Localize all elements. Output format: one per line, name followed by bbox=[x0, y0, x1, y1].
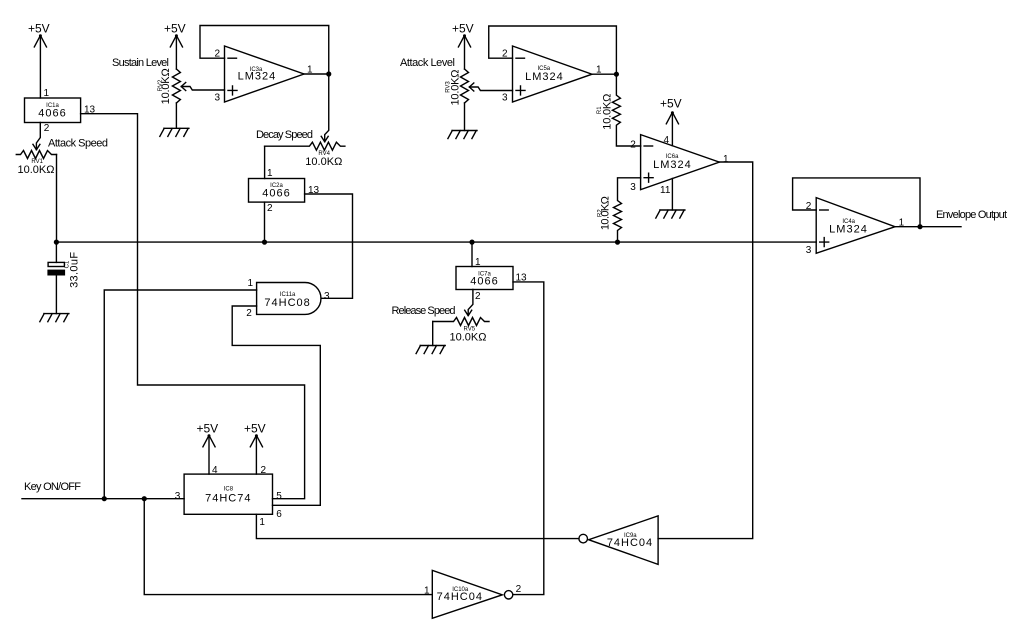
plus sign IC5a pin3 bbox=[516, 86, 525, 95]
wire IC6a pin11 to ground bbox=[671, 179, 673, 211]
junction dot R2/bus bbox=[615, 240, 620, 245]
power +5V symbol above IC1a bbox=[34, 34, 46, 47]
svg-text:+5V: +5V bbox=[197, 422, 219, 436]
wire RV2 wiper to IC3a pin 3 bbox=[181, 87, 224, 91]
bubble IC10a output bbox=[504, 591, 512, 599]
wire IC2a pin2 to bus bbox=[264, 202, 266, 242]
svg-text:LM324: LM324 bbox=[829, 224, 868, 236]
junction dot key line/AND branch bbox=[102, 496, 107, 501]
svg-text:2: 2 bbox=[475, 291, 481, 302]
and-gate IC11a 74HC08 bbox=[257, 283, 321, 315]
junction dot IC5a output node bbox=[614, 72, 619, 77]
svg-text:Decay Speed: Decay Speed bbox=[256, 129, 313, 141]
svg-text:Release Speed: Release Speed bbox=[392, 305, 456, 317]
svg-text:+5V: +5V bbox=[452, 22, 474, 36]
svg-text:10.0KΩ: 10.0KΩ bbox=[450, 332, 487, 344]
svg-text:2: 2 bbox=[44, 123, 50, 134]
wire bus to C1 top plate bbox=[55, 242, 57, 262]
svg-text:1: 1 bbox=[259, 517, 265, 528]
svg-text:4066: 4066 bbox=[470, 276, 498, 288]
svg-text:74HC04: 74HC04 bbox=[437, 591, 483, 603]
svg-text:2: 2 bbox=[246, 308, 252, 319]
power +5V symbol above IC6a pin 4 bbox=[666, 111, 678, 124]
svg-text:74HC74: 74HC74 bbox=[205, 493, 251, 505]
svg-text:1: 1 bbox=[267, 168, 273, 179]
svg-text:2: 2 bbox=[516, 584, 522, 595]
wire RV4 left lead down to IC2a pin 1 bbox=[264, 146, 266, 178]
junction dot IC4a output node bbox=[917, 224, 922, 229]
svg-text:Attack Level: Attack Level bbox=[400, 57, 455, 69]
potentiometer RV4 10.0K zigzag bbox=[265, 142, 345, 150]
wire IC6a output to IC9a input bbox=[658, 162, 753, 539]
svg-text:4: 4 bbox=[664, 135, 670, 146]
wire IC7a pin2 to RV5 wiper arrow bbox=[468, 290, 473, 316]
resistor R2 10.0K vertical zigzag bbox=[614, 178, 641, 242]
svg-text:Sustain Level: Sustain Level bbox=[112, 57, 169, 69]
capacitor C1 bottom plate (filled) bbox=[48, 270, 64, 275]
svg-text:2: 2 bbox=[261, 465, 267, 476]
svg-text:4066: 4066 bbox=[38, 108, 66, 120]
svg-text:2: 2 bbox=[630, 140, 636, 151]
svg-text:+5V: +5V bbox=[244, 422, 266, 436]
switch IC1a 4066 box bbox=[25, 98, 81, 123]
power +5V symbol above 74HC74 pin 2 bbox=[250, 434, 262, 447]
ground below RV5 bbox=[416, 346, 445, 354]
switch IC2a 4066 box bbox=[249, 179, 305, 203]
svg-text:1: 1 bbox=[44, 88, 50, 99]
wire IC5a output node bbox=[592, 73, 616, 75]
svg-text:+5V: +5V bbox=[660, 97, 682, 111]
potentiometer RV1 10.0K zigzag bbox=[16, 151, 56, 159]
junction dot IC7a pin1/bus bbox=[469, 240, 474, 245]
ground below C1 bbox=[40, 314, 69, 322]
wire AND pin1 from key line bbox=[104, 290, 256, 499]
svg-text:13: 13 bbox=[516, 273, 528, 284]
bubble IC9a output bbox=[579, 534, 588, 543]
wire Key ON/OFF input line bbox=[22, 498, 184, 500]
svg-text:3: 3 bbox=[215, 93, 221, 104]
wire IC5a feedback loop pin1 to pin2 bbox=[489, 26, 617, 74]
minus sign IC3a pin2 bbox=[228, 57, 237, 59]
svg-text:Attack Speed: Attack Speed bbox=[48, 138, 108, 150]
svg-text:+5V: +5V bbox=[28, 22, 50, 36]
svg-text:3: 3 bbox=[324, 291, 330, 302]
inverter IC10a 74HC04 triangle (points right) bbox=[432, 570, 502, 618]
ground below RV2 bbox=[160, 128, 189, 136]
svg-text:10.0KΩ: 10.0KΩ bbox=[600, 196, 612, 230]
wire 74HC74 pin2 +5V stem bbox=[255, 435, 257, 474]
plus sign IC4a pin3 bbox=[820, 238, 829, 247]
wire +5V stem to IC1a pin 1 bbox=[39, 35, 41, 98]
svg-text:1: 1 bbox=[475, 257, 481, 268]
svg-text:LM324: LM324 bbox=[238, 71, 277, 83]
svg-text:2: 2 bbox=[502, 49, 508, 60]
wire IC3a output to RV4 wiper bbox=[304, 74, 329, 142]
svg-text:Envelope Output: Envelope Output bbox=[936, 209, 1007, 221]
flip-flop IC8 74HC74 box bbox=[184, 474, 272, 514]
svg-text:3: 3 bbox=[175, 491, 181, 502]
svg-text:11: 11 bbox=[660, 185, 671, 196]
inverter IC9a 74HC04 triangle (points left) bbox=[589, 516, 659, 565]
svg-text:1: 1 bbox=[307, 65, 313, 76]
svg-text:1: 1 bbox=[596, 65, 602, 76]
svg-text:3: 3 bbox=[630, 182, 636, 193]
power +5V symbol above RV3 bbox=[458, 34, 470, 47]
wire IC3a feedback loop pin1 to pin2 bbox=[200, 26, 329, 75]
svg-text:5: 5 bbox=[276, 491, 282, 502]
svg-text:1: 1 bbox=[424, 586, 430, 597]
wire +5V stem to RV2 bbox=[175, 35, 177, 69]
svg-text:2: 2 bbox=[806, 201, 812, 212]
wire RV2 bottom to ground bbox=[175, 103, 177, 128]
svg-text:3: 3 bbox=[806, 245, 812, 256]
capacitor C1 top plate bbox=[48, 262, 64, 266]
wire RV3 bottom to ground bbox=[464, 103, 466, 131]
minus sign IC5a pin2 bbox=[516, 57, 525, 59]
wire RV5 left lead to ground bbox=[432, 322, 434, 346]
svg-text:74HC08: 74HC08 bbox=[264, 297, 310, 309]
svg-text:6: 6 bbox=[276, 509, 282, 520]
wire main bus node bbox=[56, 241, 816, 243]
wire IC6a pin2 from R1 (entry) bbox=[640, 145, 642, 147]
svg-text:10.0KΩ: 10.0KΩ bbox=[305, 156, 342, 168]
wire +5V stem to RV3 bbox=[464, 35, 466, 69]
svg-text:74HC04: 74HC04 bbox=[607, 537, 653, 549]
minus sign IC6a pin2 bbox=[644, 145, 653, 147]
power +5V symbol above RV2 bbox=[170, 34, 182, 47]
potentiometer RV3 10.0K vertical zigzag bbox=[461, 69, 469, 103]
wire C1 to ground bbox=[55, 275, 57, 314]
switch IC7a 4066 box bbox=[456, 267, 513, 290]
svg-text:4066: 4066 bbox=[262, 188, 290, 200]
wire IC1a pin2 to RV1 wiper arrow bbox=[36, 123, 40, 150]
op-amp IC6a LM324 triangle bbox=[641, 135, 720, 190]
svg-text:13: 13 bbox=[84, 105, 96, 116]
svg-text:LM324: LM324 bbox=[653, 159, 692, 171]
junction dot key line/inverter branch bbox=[142, 496, 147, 501]
minus sign IC4a pin2 bbox=[820, 209, 829, 211]
wire key line to IC10a input bbox=[144, 499, 432, 595]
plus sign IC6a pin3 bbox=[644, 173, 653, 182]
wire IC7a pin13 to IC10a output bbox=[513, 282, 544, 595]
wire IC7a pin1 to bus bbox=[471, 242, 473, 266]
svg-text:10.0KΩ: 10.0KΩ bbox=[18, 164, 55, 176]
wire AND pin2 to 74HC74 pin 6 bbox=[232, 306, 320, 505]
junction dot bus/C1 bbox=[54, 240, 59, 245]
ground below RV3 bbox=[448, 131, 477, 139]
op-amp IC3a LM324 triangle bbox=[225, 46, 305, 102]
wire IC6a pin4 +5V stem bbox=[671, 112, 673, 145]
wire RV1 right lead down to bus bbox=[56, 155, 58, 243]
svg-text:10.0KΩ: 10.0KΩ bbox=[602, 94, 614, 130]
svg-text:1: 1 bbox=[248, 278, 254, 289]
wire IC4a output to Envelope Output bbox=[895, 226, 961, 228]
wire IC2a pin13 to AND gate output bbox=[305, 194, 353, 298]
potentiometer RV5 10.0K zigzag bbox=[433, 318, 489, 326]
junction dot IC2a pin2/bus bbox=[262, 240, 267, 245]
svg-text:10.0KΩ: 10.0KΩ bbox=[160, 68, 172, 104]
svg-text:2: 2 bbox=[267, 203, 273, 214]
ground below IC6a pin11 bbox=[656, 210, 685, 218]
svg-text:2: 2 bbox=[215, 49, 221, 60]
wire IC4a feedback loop pin1 to pin2 bbox=[793, 178, 920, 227]
junction dot IC3a output node bbox=[326, 71, 331, 76]
svg-text:1: 1 bbox=[899, 218, 905, 229]
resistor R1 10.0K vertical zigzag bbox=[612, 74, 640, 146]
svg-text:13: 13 bbox=[308, 185, 320, 196]
wire IC1a pin13 to 74HC74 pin 5 bbox=[81, 114, 305, 499]
svg-text:4: 4 bbox=[212, 465, 218, 476]
svg-text:+5V: +5V bbox=[164, 22, 186, 36]
svg-text:10.0KΩ: 10.0KΩ bbox=[450, 70, 462, 106]
svg-text:LM324: LM324 bbox=[525, 71, 564, 83]
power +5V symbol above 74HC74 pin 4 bbox=[203, 434, 215, 447]
potentiometer RV2 10.0K vertical zigzag bbox=[172, 69, 180, 103]
svg-text:1: 1 bbox=[723, 154, 729, 165]
wire 74HC74 pin4 +5V stem bbox=[208, 435, 210, 474]
svg-text:33.0uF: 33.0uF bbox=[69, 252, 81, 288]
svg-text:Key ON/OFF: Key ON/OFF bbox=[24, 481, 81, 493]
plus sign IC3a pin3 bbox=[228, 86, 237, 95]
op-amp IC4a LM324 triangle bbox=[816, 198, 895, 254]
op-amp IC5a LM324 triangle bbox=[513, 46, 593, 102]
wire RV3 wiper to IC5a pin 3 bbox=[470, 87, 513, 91]
wire 74HC74 pin1 to IC9a output bubble bbox=[256, 514, 579, 538]
svg-text:3: 3 bbox=[502, 93, 508, 104]
